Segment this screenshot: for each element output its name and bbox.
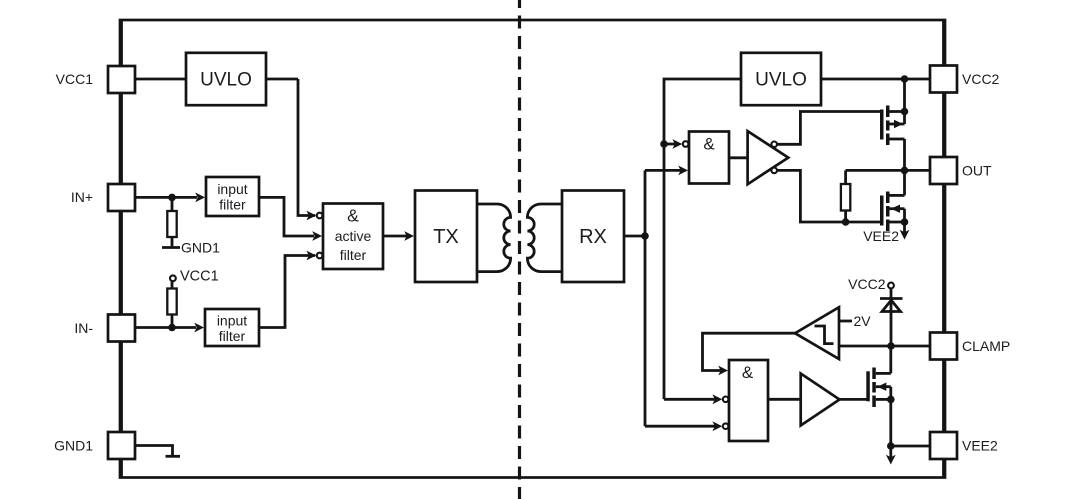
svg-text:filter: filter [340, 247, 367, 263]
svg-text:&: & [703, 135, 715, 154]
svg-text:VCC1: VCC1 [180, 269, 219, 285]
svg-text:VEE2: VEE2 [863, 228, 899, 244]
svg-text:input: input [217, 181, 247, 197]
svg-text:OUT: OUT [962, 163, 992, 179]
svg-text:filter: filter [219, 328, 246, 344]
svg-text:&: & [742, 363, 754, 382]
svg-text:active: active [335, 228, 372, 244]
svg-text:VCC2: VCC2 [962, 71, 1000, 87]
svg-text:RX: RX [579, 226, 607, 248]
svg-text:2V: 2V [854, 313, 872, 329]
svg-text:VEE2: VEE2 [962, 438, 998, 454]
svg-text:UVLO: UVLO [200, 70, 252, 91]
svg-text:&: & [347, 206, 359, 226]
svg-text:filter: filter [219, 197, 246, 213]
svg-text:input: input [217, 313, 247, 329]
svg-text:TX: TX [433, 226, 459, 248]
svg-text:CLAMP: CLAMP [962, 338, 1010, 354]
svg-text:GND1: GND1 [54, 438, 93, 454]
svg-text:IN+: IN+ [71, 189, 93, 205]
svg-text:VCC2: VCC2 [848, 276, 886, 292]
svg-text:VCC1: VCC1 [56, 71, 94, 87]
svg-text:GND1: GND1 [181, 240, 220, 256]
svg-text:IN-: IN- [74, 320, 93, 336]
svg-text:UVLO: UVLO [755, 70, 807, 91]
